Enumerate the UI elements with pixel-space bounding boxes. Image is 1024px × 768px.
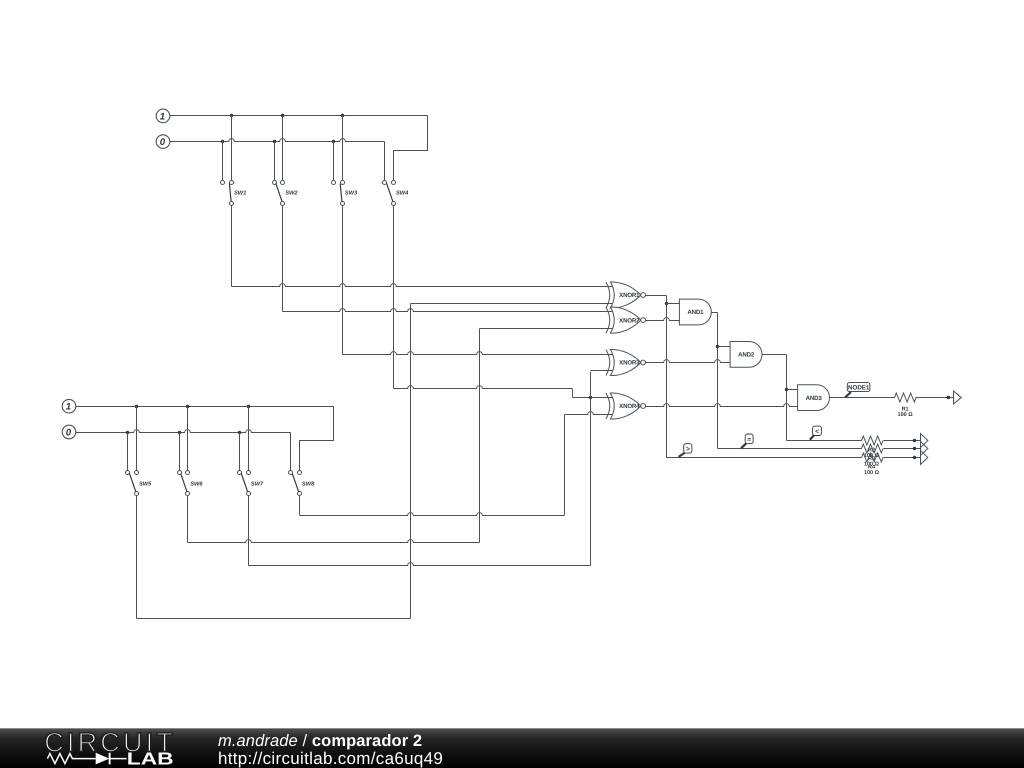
svg-text:<: < — [815, 429, 819, 436]
svg-text:SW8: SW8 — [302, 481, 315, 487]
svg-text:XNOR2: XNOR2 — [619, 317, 640, 324]
svg-text:LAB: LAB — [127, 748, 174, 768]
svg-text:AND3: AND3 — [806, 395, 823, 402]
svg-text:XNOR3: XNOR3 — [619, 360, 640, 367]
svg-text:1: 1 — [160, 111, 165, 122]
svg-text:XNOR4: XNOR4 — [619, 403, 640, 410]
svg-text:>: > — [686, 446, 690, 453]
svg-text:SW5: SW5 — [139, 481, 152, 487]
svg-text:100 Ω: 100 Ω — [898, 412, 914, 418]
svg-text:100 Ω: 100 Ω — [864, 470, 880, 476]
svg-text:SW1: SW1 — [234, 191, 246, 197]
svg-text:SW7: SW7 — [251, 481, 264, 487]
svg-text:1: 1 — [66, 402, 71, 413]
svg-text:0: 0 — [160, 137, 166, 148]
svg-text:AND2: AND2 — [738, 352, 755, 359]
svg-text:=: = — [747, 437, 751, 444]
svg-text:0: 0 — [66, 427, 72, 438]
svg-text:XNOR1: XNOR1 — [619, 292, 640, 299]
svg-text:SW6: SW6 — [190, 481, 203, 487]
svg-text:SW4: SW4 — [396, 191, 409, 197]
svg-text:SW2: SW2 — [285, 191, 298, 197]
svg-text:SW3: SW3 — [345, 191, 358, 197]
svg-text:NODE1: NODE1 — [848, 385, 870, 392]
svg-text:AND1: AND1 — [687, 309, 704, 316]
